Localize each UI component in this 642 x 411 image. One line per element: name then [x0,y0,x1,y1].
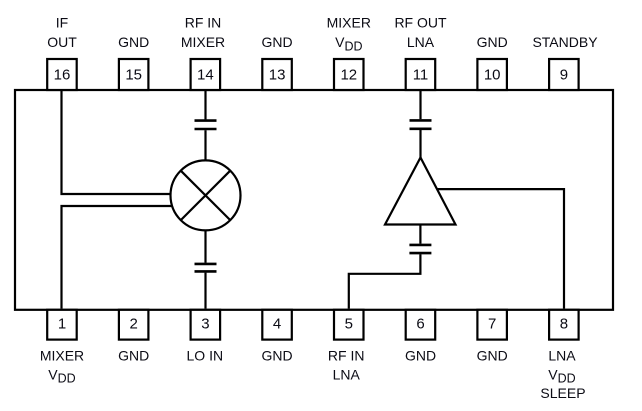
wire capacitor C2 to pin3 LO IN [204,273,206,309]
wire LNA side to pin8 [437,189,564,308]
pin 15 box [119,59,148,90]
pin 11 box [406,59,436,90]
svg-text:15: 15 [125,67,142,84]
svg-text:GND: GND [118,34,149,50]
wire capacitor C4 to pin5 RF IN LNA [349,254,421,308]
op-amp U2 LNA triangle [385,158,456,225]
svg-text:4: 4 [273,316,281,333]
svg-text:9: 9 [560,67,568,84]
pin 9 box [549,59,579,90]
svg-text:1: 1 [58,316,66,333]
svg-text:VDD: VDD [335,34,362,53]
svg-text:STANDBY: STANDBY [532,34,598,50]
svg-text:11: 11 [413,67,429,84]
svg-text:LNA: LNA [407,34,435,50]
pin 4 box [262,310,292,340]
svg-text:LNA: LNA [333,366,361,382]
wire pin14 RF IN to capacitor C1 [204,91,206,119]
wire capacitor C3 to LNA apex [419,130,421,159]
svg-text:12: 12 [340,67,357,84]
capacitor C1 (mixer RF input) [195,121,217,129]
svg-text:2: 2 [130,316,138,333]
svg-text:RF IN: RF IN [328,347,365,363]
svg-text:GND: GND [262,347,293,363]
pin 10 box [477,59,507,90]
svg-text:MIXER: MIXER [181,34,225,50]
capacitor C3 (LNA output) [410,120,432,128]
svg-text:GND: GND [477,34,508,50]
svg-text:5: 5 [345,316,353,333]
wire pin11 RF OUT to capacitor C3 [419,91,421,119]
label pin16 IF OUT [47,15,77,51]
label pin8 LNA VDD SLEEP [540,347,585,401]
label pin5 RF IN LNA [328,347,365,382]
svg-text:14: 14 [197,67,214,84]
svg-text:GND: GND [118,347,149,363]
wire capacitor C1 to mixer top [204,130,206,161]
capacitor C4 (LNA input) [409,245,431,253]
capacitor C2 (LO input) [195,264,217,272]
label pin11 RF OUT LNA [394,15,447,51]
label pin14 RF IN MIXER [181,15,225,51]
svg-text:RF OUT: RF OUT [394,15,447,31]
pin 16 box [47,59,76,90]
svg-text:MIXER: MIXER [40,347,84,363]
label pin1 MIXER VDD [40,347,84,385]
svg-text:LNA: LNA [548,347,576,363]
svg-text:7: 7 [488,316,496,333]
pin 14 box [191,59,221,90]
IC body outline [15,90,613,310]
mixer U1 X diagonal 1 [181,171,230,220]
pin 6 box [406,310,436,340]
mixer U1 X diagonal 2 [181,171,230,220]
svg-text:VDD: VDD [548,366,575,385]
pin 12 box [334,59,364,90]
svg-text:GND: GND [477,347,508,363]
label pin12 MIXER VDD [327,15,371,54]
svg-text:6: 6 [416,316,424,333]
svg-text:MIXER: MIXER [327,15,371,31]
pin 3 box [191,310,221,340]
mixer U1 circle [171,160,241,230]
svg-text:8: 8 [560,316,568,333]
svg-text:RF IN: RF IN [185,15,222,31]
pin 13 box [262,59,292,90]
wire pin1 MIXER VDD to mixer [62,206,173,309]
wire mixer bottom to capacitor C2 [204,230,206,262]
svg-text:GND: GND [405,347,436,363]
svg-text:13: 13 [269,67,286,84]
svg-text:VDD: VDD [48,366,75,385]
wire LNA base to capacitor C4 [419,225,421,244]
pin 5 box [334,310,364,340]
pin 8 box [549,310,579,340]
svg-text:16: 16 [54,67,71,84]
svg-text:SLEEP: SLEEP [540,385,585,401]
svg-text:10: 10 [484,67,501,84]
pin 7 box [477,310,507,340]
svg-text:IF: IF [56,15,68,31]
wire pin16 IF OUT to mixer [62,91,171,194]
pin 1 box [47,310,76,340]
svg-text:GND: GND [262,34,293,50]
svg-text:3: 3 [201,316,209,333]
svg-text:LO IN: LO IN [187,347,224,363]
pin 2 box [119,310,148,340]
svg-text:OUT: OUT [47,34,77,50]
